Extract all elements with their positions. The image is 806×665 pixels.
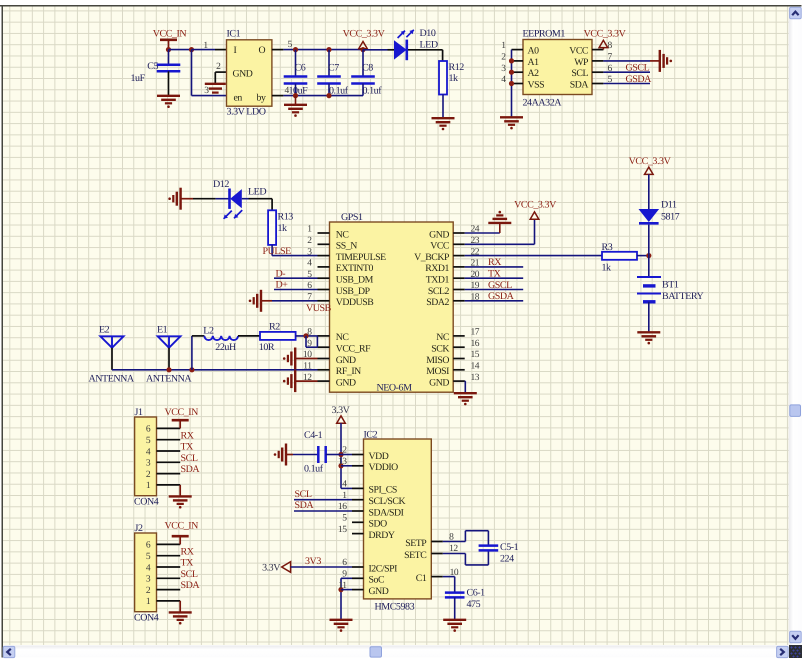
svg-text:ANTENNA: ANTENNA	[89, 373, 135, 384]
svg-text:NC: NC	[436, 332, 449, 343]
capacitor C8	[351, 50, 375, 96]
node C8 top	[360, 47, 365, 52]
svg-text:1: 1	[501, 41, 506, 51]
node VDDIO junction	[338, 463, 343, 468]
node C7 bottom	[326, 93, 331, 98]
pin EEPROM 8	[592, 49, 603, 51]
svg-text:VSS: VSS	[528, 79, 545, 90]
ground IC2	[330, 620, 353, 632]
pin GPS1 1 (NC)	[318, 232, 330, 234]
wire bottom rail	[283, 95, 363, 97]
pin GPS1 24 (GND)	[453, 232, 465, 234]
pin number 3 J2	[146, 575, 151, 585]
svg-text:MISO: MISO	[426, 355, 449, 366]
comment CON4 J2	[134, 613, 159, 624]
pin GPS1 19 (SCL2)	[453, 289, 465, 291]
wire GND stub IC2	[341, 589, 352, 591]
pin name SCL2 GPS1-right	[428, 286, 450, 297]
pin name SDA/SDI IC2	[369, 507, 404, 518]
comment 3.3V LDO	[227, 107, 266, 118]
node battery junction	[646, 253, 651, 258]
pin number 2 EEPROM	[501, 53, 506, 63]
resistor R2	[260, 332, 296, 340]
pin number 17 GPS1	[471, 328, 480, 338]
svg-text:C6: C6	[295, 63, 306, 74]
svg-text:SCL: SCL	[295, 489, 312, 500]
connector J1 body	[135, 417, 157, 496]
net label RX J1	[181, 430, 195, 441]
pin name GND IC1	[233, 69, 253, 80]
designator C5-1	[500, 542, 519, 553]
svg-text:D11: D11	[661, 200, 677, 211]
pin number 4 GPS1	[307, 259, 312, 269]
node VDD junction	[338, 452, 343, 457]
designator EEPROM1	[523, 29, 566, 40]
svg-text:BATTERY: BATTERY	[662, 291, 704, 302]
svg-text:VCC_3.3V: VCC_3.3V	[629, 156, 672, 167]
pin GPS1 5 (USB_DM)	[318, 277, 330, 279]
node C7 top	[326, 47, 331, 52]
capacitor C4-1	[318, 446, 325, 463]
wire to IC1 pin 1	[192, 49, 227, 51]
pin GPS1 16 (SCK)	[453, 346, 465, 348]
svg-text:CON4: CON4	[134, 497, 159, 508]
label C6	[295, 63, 306, 74]
pin number 12 GPS1	[303, 373, 312, 383]
svg-text:GND: GND	[233, 69, 253, 80]
wire 3.3V to SPI_CS	[341, 423, 352, 488]
pin number 8 EEPROM	[608, 41, 613, 51]
pin IC1 pin 5 output	[272, 49, 284, 51]
pin GPS1 14 (MOSI)	[453, 369, 465, 371]
svg-text:CON4: CON4	[134, 613, 159, 624]
svg-text:2: 2	[342, 446, 347, 456]
svg-text:IC1: IC1	[227, 29, 241, 40]
svg-text:C4-1: C4-1	[304, 430, 323, 441]
pin name SETP IC2	[405, 538, 427, 549]
svg-text:8: 8	[608, 41, 613, 51]
pin GPS1 10 (GND)	[318, 358, 330, 360]
antenna E1	[157, 324, 180, 348]
pin number 6 J1	[146, 425, 151, 435]
pin name SCL EEPROM	[571, 68, 588, 79]
sheet border top	[0, 5, 802, 7]
wire SoC to ground	[340, 578, 342, 619]
svg-text:D-: D-	[276, 268, 286, 279]
svg-text:1: 1	[307, 225, 312, 235]
ground GPS pin10	[283, 348, 295, 370]
svg-text:SCL2: SCL2	[428, 286, 450, 297]
svg-text:2: 2	[501, 53, 506, 63]
pin EEPROM 4	[512, 83, 524, 85]
pin number 10 GPS1	[303, 350, 312, 360]
designator C6-1	[467, 588, 486, 599]
pin name DRDY IC2	[369, 530, 395, 541]
svg-text:TIMEPULSE: TIMEPULSE	[336, 252, 386, 263]
pin number 2 GPS1	[307, 236, 312, 246]
wire I2C/SPI	[291, 566, 352, 568]
wire VCC_IN rail	[169, 49, 192, 51]
svg-text:GND: GND	[429, 229, 449, 240]
svg-text:12: 12	[449, 544, 458, 554]
value 1uF	[131, 73, 146, 84]
comment LED D10	[420, 40, 438, 51]
pin IC2 8 (SETP)	[431, 541, 443, 543]
net label SDA J2	[181, 580, 201, 591]
svg-text:D+: D+	[276, 280, 289, 291]
wire BT1 to ground	[648, 302, 650, 332]
svg-text:VCC_3.3V: VCC_3.3V	[343, 29, 386, 40]
pin J2 2	[157, 589, 181, 591]
pin name A0	[528, 46, 540, 57]
pin EEPROM 2	[512, 60, 524, 62]
net label RX	[488, 257, 502, 268]
pin number 18 GPS1	[471, 293, 480, 303]
pin number 19 GPS1	[471, 281, 480, 291]
svg-text:WP: WP	[574, 57, 589, 68]
capacitor C6-1	[445, 593, 465, 598]
value 1k R3	[602, 263, 612, 274]
comment ANTENNA E1	[146, 373, 192, 384]
pin number 1 EEPROM	[501, 41, 506, 51]
pin GPS1 21 (RXD1)	[453, 266, 465, 268]
pin GPS1 6 (USB_DP)	[318, 289, 330, 291]
svg-text:5: 5	[288, 40, 293, 50]
pin number 5 IC1	[288, 40, 293, 50]
pin name C1 IC2	[416, 573, 427, 584]
pin GPS1 15 (MISO)	[453, 358, 465, 360]
pin number 4 IC1	[285, 86, 290, 96]
ground J1	[169, 485, 192, 509]
pin number 3 IC1	[204, 86, 209, 96]
svg-text:USB_DP: USB_DP	[336, 286, 371, 297]
wire SCL net IC2	[294, 499, 352, 501]
svg-text:VCC_IN: VCC_IN	[165, 407, 199, 418]
svg-text:IC2: IC2	[364, 430, 378, 441]
vertical scrollbar up button	[790, 7, 802, 19]
svg-text:GND: GND	[336, 377, 356, 388]
pin number 9 GPS1	[307, 339, 312, 349]
svg-text:4: 4	[307, 259, 312, 269]
pin name RXD1 GPS1-right	[425, 263, 449, 274]
comment ANTENNA E2	[89, 373, 135, 384]
pin number 4 IC2	[342, 480, 347, 490]
net label GSDA GPS	[488, 291, 515, 302]
wire D11 to junction	[648, 225, 650, 277]
svg-text:SCL: SCL	[181, 453, 198, 464]
svg-text:A1: A1	[528, 57, 540, 68]
pin J2 5	[157, 555, 181, 557]
pin name SDA2 GPS1-right	[426, 297, 449, 308]
pin GPS1 20 (TXD1)	[453, 277, 465, 279]
horizontal scrollbar right button	[777, 646, 789, 657]
value 475	[467, 599, 481, 610]
pin number 23 GPS1	[471, 236, 480, 246]
svg-text:0.1uf: 0.1uf	[329, 86, 349, 97]
battery BT1	[637, 277, 661, 302]
wire R3 to battery node	[637, 255, 649, 257]
svg-text:3: 3	[501, 64, 506, 74]
wire GSCL	[603, 71, 650, 73]
net label 3V3	[305, 556, 321, 567]
power flag VCC_3.3V D11	[629, 156, 672, 174]
wire V_BCKP to R3	[465, 255, 602, 257]
pin name VCC EEPROM	[569, 46, 588, 57]
capacitor C5	[157, 50, 181, 96]
pin J1 4	[157, 450, 181, 452]
label C7	[328, 63, 339, 74]
power flag VCC_IN J1	[165, 407, 199, 428]
wire SETP loop	[443, 531, 489, 546]
ground WP	[660, 50, 672, 72]
designator J1	[135, 407, 143, 418]
pin name SDO IC2	[369, 519, 388, 530]
svg-text:9: 9	[342, 570, 347, 580]
pin J1 1	[157, 484, 181, 486]
net label TX J2	[181, 558, 195, 569]
node GND IC2 junction	[338, 587, 343, 592]
ground GPS pin12	[283, 370, 295, 392]
pin number 1 IC1	[203, 41, 208, 51]
pin name GND GPS1-right	[429, 377, 449, 388]
power flag VCC_3.3V at C8	[343, 29, 386, 49]
ground BT1	[637, 332, 660, 344]
svg-text:DRDY: DRDY	[369, 530, 395, 541]
wire D- net	[274, 277, 318, 279]
port 3.3V	[262, 562, 291, 574]
node EEPROM pin3	[509, 70, 514, 75]
pin name SPI_CS IC2	[369, 485, 397, 496]
pin GPS1 4 (EXTINT0)	[318, 266, 330, 268]
diode D11	[639, 209, 660, 223]
ground J2	[169, 601, 192, 625]
net label TX	[488, 269, 502, 280]
pin name SS_N GPS1-left	[336, 241, 357, 252]
svg-text:2: 2	[216, 62, 221, 72]
svg-text:SDA: SDA	[181, 580, 201, 591]
svg-text:R2: R2	[269, 322, 280, 333]
svg-text:224: 224	[500, 554, 514, 565]
vertical scrollbar thumb	[790, 405, 801, 417]
pin name NC GPS1-left	[336, 229, 349, 240]
wire pin10 ground	[295, 358, 317, 360]
svg-text:R12: R12	[449, 62, 465, 73]
wire output rail	[283, 49, 363, 51]
svg-text:16: 16	[471, 339, 480, 349]
wire R2 to pin8	[296, 335, 318, 337]
svg-text:VCC_IN: VCC_IN	[153, 29, 187, 40]
svg-text:3.3V: 3.3V	[262, 563, 281, 574]
node E1 rail	[166, 367, 171, 372]
pin J2 3	[157, 577, 181, 579]
designator D12	[213, 179, 229, 190]
svg-text:I: I	[234, 45, 237, 56]
pin name O	[259, 45, 266, 56]
svg-text:4: 4	[146, 447, 151, 457]
svg-text:SCL: SCL	[571, 68, 588, 79]
ground D12 side	[168, 188, 180, 210]
sheet border left	[1, 6, 3, 658]
ground EEPROM	[500, 117, 523, 129]
capacitor C5-1	[479, 546, 499, 551]
svg-text:RX: RX	[181, 546, 195, 557]
svg-text:D10: D10	[420, 28, 436, 39]
svg-text:A2: A2	[528, 68, 540, 79]
ground pin13	[454, 393, 477, 406]
wire E2 stem	[111, 348, 113, 370]
pin number 10 IC2	[450, 568, 459, 578]
pin J1 6	[157, 427, 181, 429]
corner size grip	[789, 645, 802, 658]
svg-text:SPI_CS: SPI_CS	[369, 485, 397, 496]
label C5	[147, 61, 158, 72]
pin name VDDUSB GPS1-left	[336, 297, 374, 308]
value 10R	[259, 342, 275, 353]
svg-text:GND: GND	[369, 586, 389, 597]
ground C5	[157, 96, 180, 108]
wire VDD stub	[341, 454, 352, 456]
value 224	[500, 554, 514, 565]
value 22uH	[215, 342, 236, 353]
pin number 3 J1	[146, 459, 151, 469]
wire pin12 ground	[295, 380, 317, 382]
svg-text:17: 17	[471, 328, 480, 338]
wire GSCL net GPS	[465, 289, 524, 291]
wire TX net	[465, 277, 524, 279]
svg-text:SDA: SDA	[570, 79, 589, 90]
svg-text:1k: 1k	[449, 73, 459, 84]
resistor R3	[602, 252, 637, 260]
wire ground to C4-1	[286, 454, 318, 456]
svg-text:VCC_3.3V: VCC_3.3V	[514, 200, 557, 211]
svg-text:ANTENNA: ANTENNA	[146, 373, 192, 384]
svg-text:D12: D12	[213, 179, 229, 190]
wire SDA net IC2	[294, 510, 352, 512]
svg-text:GSCL: GSCL	[488, 280, 512, 291]
pin number 13 IC2	[338, 457, 347, 467]
svg-text:VCC: VCC	[569, 46, 588, 57]
connector J2 body	[135, 533, 157, 612]
svg-text:RX: RX	[181, 430, 195, 441]
pin number 2 J1	[146, 470, 151, 480]
pin name VCC GPS1-right	[430, 241, 449, 252]
svg-text:22uH: 22uH	[215, 342, 236, 353]
comment LED D12	[248, 187, 266, 198]
svg-text:1: 1	[342, 491, 347, 501]
wire RX net	[465, 266, 524, 268]
wire EEPROM address tie	[511, 50, 513, 117]
svg-text:GND: GND	[336, 355, 356, 366]
power flag VCC_IN J2	[165, 521, 199, 545]
comment HMC5983	[375, 602, 415, 613]
pin name A1	[528, 57, 540, 68]
node VCC_RF junction	[303, 333, 308, 338]
wire GND pin24	[465, 232, 500, 234]
wire to D10	[363, 49, 394, 51]
svg-text:VDDUSB: VDDUSB	[336, 297, 374, 308]
svg-text:O: O	[259, 45, 266, 56]
vertical scrollbar down button	[790, 631, 802, 643]
node VCC_IN junction	[166, 47, 171, 52]
svg-text:11: 11	[338, 581, 347, 591]
svg-text:C1: C1	[416, 573, 427, 584]
pin name by	[257, 92, 266, 103]
designator R3	[602, 242, 613, 253]
value 1k R12	[449, 73, 459, 84]
wire C6-1 to ground	[454, 597, 456, 619]
svg-text:3: 3	[204, 86, 209, 96]
svg-text:EXTINT0: EXTINT0	[336, 263, 374, 274]
net label D-	[276, 268, 286, 279]
svg-text:GSDA: GSDA	[488, 291, 515, 302]
svg-text:10R: 10R	[259, 342, 275, 353]
wire L2 to R2	[238, 335, 260, 337]
pin IC2 10 (C1)	[431, 576, 443, 578]
pin IC2 13 (VDDIO)	[352, 465, 364, 467]
designator R2	[269, 322, 280, 333]
svg-text:VDDIO: VDDIO	[369, 462, 399, 473]
svg-text:USB_DM: USB_DM	[336, 275, 374, 286]
svg-text:MOSI: MOSI	[426, 366, 449, 377]
svg-text:475: 475	[467, 599, 481, 610]
value 1k R13	[278, 223, 288, 234]
wire antenna rail	[112, 369, 318, 371]
svg-text:SDA/SDI: SDA/SDI	[369, 507, 404, 518]
diode D10 LED	[394, 40, 407, 61]
svg-text:VCC_RF: VCC_RF	[336, 344, 371, 355]
wire VDDUSB	[261, 300, 318, 302]
pin GPS1 3 (TIMEPULSE)	[318, 255, 330, 257]
pin EEPROM 6	[592, 71, 603, 73]
svg-text:TX: TX	[181, 558, 195, 569]
svg-text:14: 14	[471, 362, 480, 372]
svg-text:6: 6	[146, 425, 151, 435]
pin name SETC IC2	[404, 550, 426, 561]
pin name MOSI GPS1-right	[426, 366, 449, 377]
svg-text:RF_IN: RF_IN	[336, 366, 361, 377]
pin GPS1 18 (SDA2)	[453, 300, 465, 302]
wire SETC loop	[443, 551, 489, 565]
svg-text:A0: A0	[528, 46, 540, 57]
net label RX J2	[181, 546, 195, 557]
svg-text:SCL: SCL	[181, 569, 198, 580]
designator J2	[135, 523, 143, 534]
svg-text:15: 15	[338, 525, 347, 535]
designator GPS1	[341, 212, 363, 223]
svg-text:VUSB: VUSB	[306, 303, 332, 314]
pin number 4 EEPROM	[501, 75, 506, 85]
pin GPS1 23 (VCC)	[453, 243, 465, 245]
net label SCL J2	[181, 569, 198, 580]
svg-text:5: 5	[146, 552, 151, 562]
resistor R12	[439, 61, 447, 95]
pin number 15 IC2	[338, 525, 347, 535]
pin name VDDIO IC2	[369, 462, 399, 473]
svg-text:4: 4	[146, 563, 151, 573]
wire E1 stem	[168, 348, 170, 370]
pin GPS1 9 (VCC_RF)	[318, 346, 330, 348]
svg-text:TXD1: TXD1	[426, 275, 450, 286]
pin number 5 GPS1	[307, 270, 312, 280]
ground VDDUSB	[249, 290, 261, 312]
pin name WP	[574, 57, 589, 68]
pin name USB_DM GPS1-left	[336, 275, 374, 286]
resistor R13	[268, 210, 276, 245]
pin GPS1 13 (GND)	[453, 380, 465, 382]
svg-text:3: 3	[146, 575, 151, 585]
comment BATTERY	[662, 291, 704, 302]
svg-text:R13: R13	[278, 212, 294, 223]
